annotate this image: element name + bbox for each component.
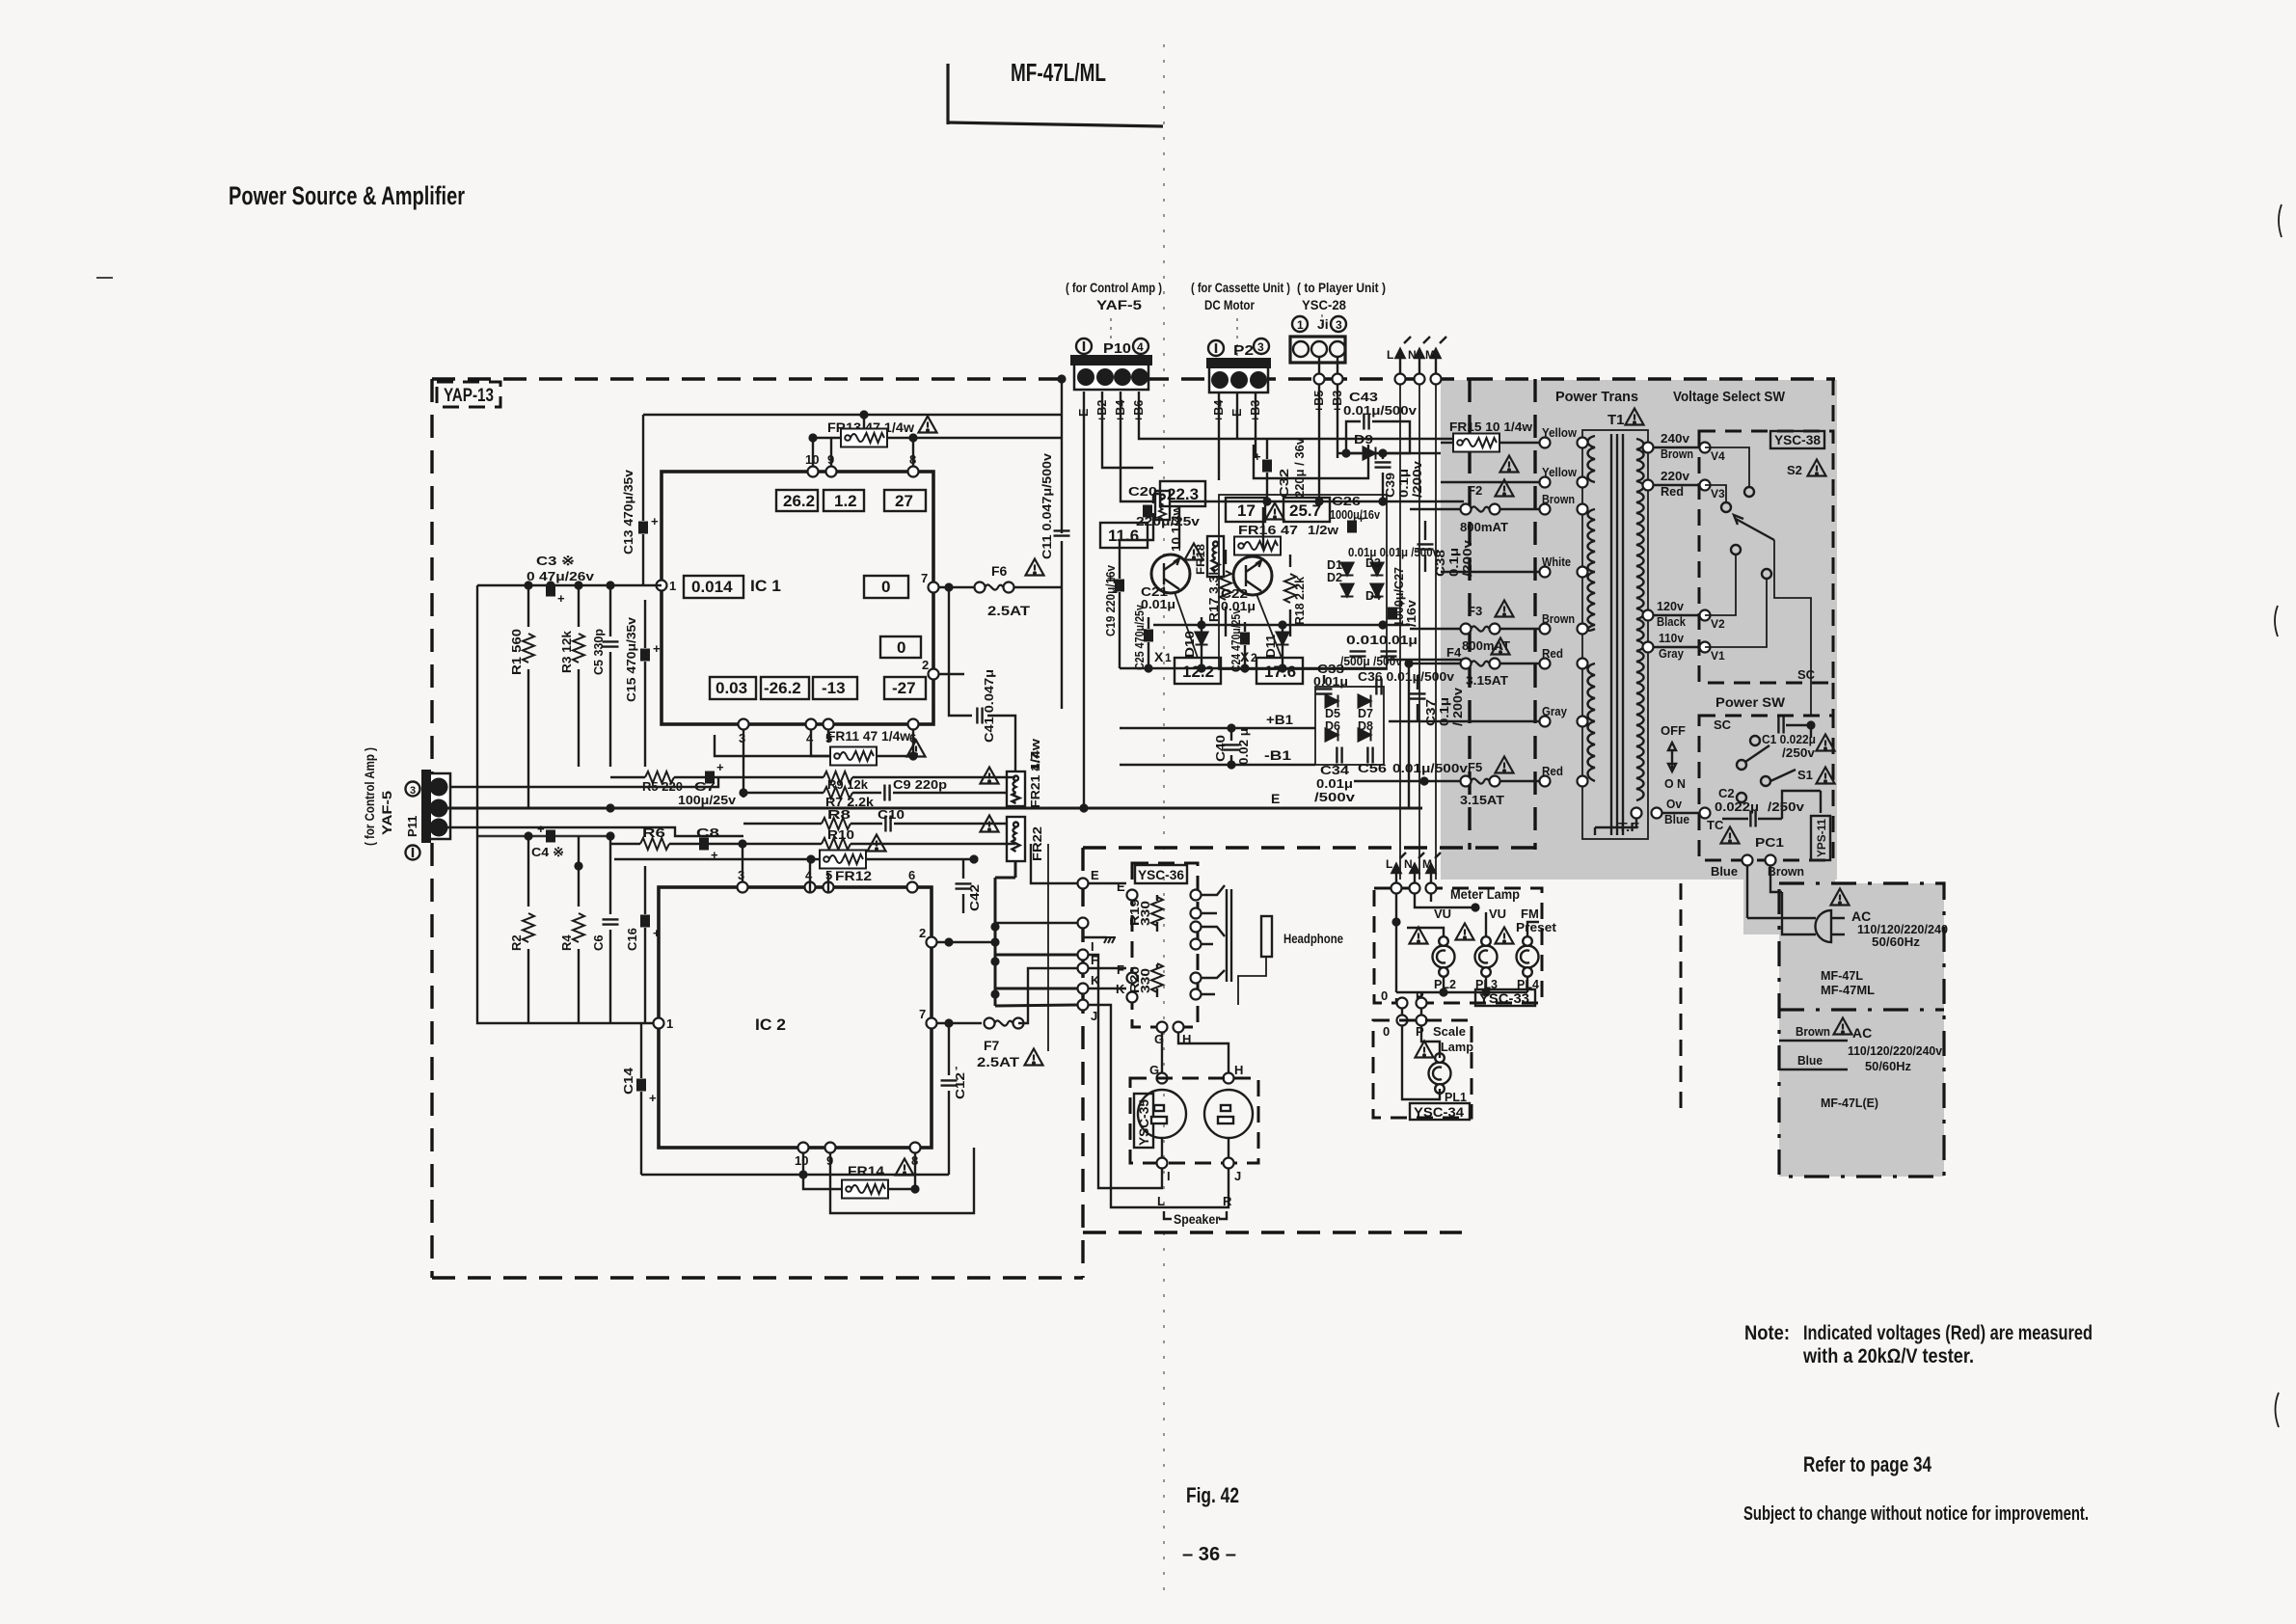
svg-text:C40: C40 [1214, 735, 1228, 762]
vertical bus from FR22 [995, 861, 1015, 1006]
svg-text:Gray: Gray [1659, 646, 1685, 661]
wire gnd row [995, 922, 1077, 924]
voltage box -26.2 (pin4) [761, 677, 809, 699]
E wire from P11 long horizontal [446, 807, 1422, 810]
svg-text:0: 0 [881, 578, 890, 596]
svg-text:N: N [1408, 348, 1417, 362]
C13 cap [638, 415, 659, 585]
IC2 pin 3 [738, 882, 748, 893]
primary coil seg1 [1588, 436, 1596, 482]
power section dashed right edge [1832, 379, 1835, 431]
svg-text:R9 12k: R9 12k [827, 777, 869, 792]
label (for Cassette Unit) DC Motor [1191, 280, 1290, 357]
bridge diodes D5 D7 [1325, 695, 1373, 721]
TC node [1700, 808, 1711, 819]
wire P2 pins down [1219, 392, 1256, 480]
Speaker label with bracket [1164, 1211, 1227, 1227]
svg-text:Power SW: Power SW [1715, 694, 1786, 710]
wire F4 row [1387, 659, 1464, 661]
wire P11 top pin to IC area [450, 777, 718, 787]
wire pins 10,9 up to FR13 left [813, 438, 841, 466]
svg-text:with a 20kΩ/V tester.: with a 20kΩ/V tester. [1802, 1345, 1974, 1367]
C40 cap [1224, 728, 1240, 765]
svg-text:O N: O N [1664, 776, 1686, 791]
FR15 warning [1500, 456, 1519, 473]
wire F3 left [1410, 628, 1460, 630]
TF bottom wire [1595, 818, 1636, 835]
secondary tap wires [1654, 447, 1705, 813]
svg-text:27: 27 [895, 492, 913, 510]
svg-text:220μ / 36v: 220μ / 36v [1292, 437, 1307, 498]
FR18 vertical fusible resistor [1207, 536, 1224, 577]
YAP-13 right edge [1081, 848, 1084, 1278]
output section box [1219, 495, 1387, 669]
C20 cap [1128, 484, 1157, 518]
R18 2.2k vertical resistor [1284, 555, 1296, 636]
C2 cap [1722, 811, 1782, 827]
wire pin2 right [937, 941, 995, 943]
svg-text:220μ/25v: 220μ/25v [1136, 514, 1201, 528]
X1 pointer line and label [1175, 592, 1198, 658]
F7 fuse [985, 1018, 1024, 1029]
svg-text:120v: 120v [1657, 599, 1685, 613]
svg-text:1: 1 [1165, 651, 1172, 664]
J node [1078, 1000, 1089, 1011]
svg-text:R2: R2 [509, 934, 524, 951]
R20 330 resistor [1151, 963, 1163, 997]
C30 C31 caps [1340, 634, 1418, 668]
svg-text:1: 1 [1297, 318, 1304, 332]
YSC-33 dashed box [1374, 888, 1542, 1003]
svg-text:F6: F6 [991, 563, 1008, 579]
svg-text:800mAT: 800mAT [1460, 520, 1508, 534]
svg-text:YSC-28: YSC-28 [1302, 297, 1346, 312]
svg-text:P11: P11 [405, 816, 419, 837]
wire FR14 bottom loop [830, 1148, 974, 1213]
R17 3.3k vertical resistor [1220, 550, 1231, 636]
svg-text:,: , [955, 1058, 958, 1071]
G H nodes bottom of YSC-36 [1157, 1022, 1168, 1033]
V2 node [1700, 610, 1711, 621]
S1 switch [1750, 736, 1760, 745]
bottom connector nodes [1742, 855, 1753, 866]
wire from FR13 area up to top rail [863, 415, 865, 428]
IC2 pin 2 [927, 937, 937, 948]
IC1 pin 2 [929, 669, 939, 680]
FR21 warning [981, 768, 999, 784]
wire FR15 to transformer [1499, 442, 1545, 444]
svg-text:F7: F7 [984, 1038, 1000, 1053]
fold dotted line [1163, 44, 1165, 1603]
svg-text:F4: F4 [1446, 645, 1462, 660]
svg-text:C56: C56 [1358, 762, 1387, 775]
D3 D4 diodes [1365, 556, 1384, 603]
svg-text:YSC-36: YSC-36 [1138, 867, 1184, 882]
wires into AC plug [1747, 892, 1816, 934]
wire E row [1031, 844, 1077, 883]
svg-text:D2: D2 [1327, 571, 1342, 584]
svg-text:Brown: Brown [1542, 492, 1575, 506]
YAP-13 bottom edge [432, 1276, 1083, 1279]
svg-text:4: 4 [1137, 340, 1144, 354]
C43 loop [1346, 421, 1410, 453]
svg-text:( for Control Amp ): ( for Control Amp ) [1066, 280, 1162, 295]
secondary taps [1643, 443, 1654, 453]
speaker section dashed top [1083, 846, 1535, 849]
J1 wires down [1318, 357, 1320, 496]
svg-text:/250v: /250v [1782, 745, 1816, 760]
svg-text:1.2: 1.2 [834, 492, 857, 510]
wire P10 +B4 down then right [1121, 392, 1464, 501]
voltage box -13 (pin5) [813, 677, 857, 699]
IC1 pin 3 [739, 719, 749, 730]
C10 cap [878, 807, 905, 832]
C8 cap [696, 826, 719, 862]
svg-text:Power Trans: Power Trans [1555, 389, 1638, 405]
svg-text:M: M [1422, 857, 1432, 871]
svg-text:+B1: +B1 [1266, 712, 1293, 727]
svg-text:26.2: 26.2 [783, 492, 815, 510]
svg-text:0: 0 [1381, 988, 1388, 1003]
svg-text:/500μ /500v: /500μ /500v [1340, 655, 1402, 668]
wire J1 +B5 column to lower [1318, 496, 1320, 501]
svg-text:V4: V4 [1711, 449, 1725, 463]
primary coil seg3 [1588, 572, 1596, 631]
svg-text:0 47μ/26v: 0 47μ/26v [527, 569, 595, 583]
C3 cap [546, 584, 565, 607]
IC2 pin 9 [825, 1143, 836, 1153]
svg-text:SC: SC [1797, 667, 1816, 682]
C32 loop [1254, 445, 1368, 478]
wires below power sw [1747, 866, 1782, 918]
svg-text:Refer to page 34: Refer to page 34 [1803, 1452, 1932, 1476]
svg-text:L: L [1386, 857, 1392, 871]
D9 diode [1354, 432, 1376, 460]
22.3 voltage box [1160, 481, 1205, 506]
svg-text:C33: C33 [1317, 663, 1344, 676]
svg-text:J: J [1091, 1009, 1097, 1023]
svg-text:2: 2 [919, 926, 926, 940]
bridge bottom caps [1337, 747, 1372, 764]
C37 cap [1410, 675, 1426, 721]
PL2 lamp [1433, 936, 1455, 977]
FR15 fusible resistor [1453, 434, 1499, 452]
ground node [1078, 918, 1089, 929]
svg-text:R10: R10 [827, 827, 854, 842]
IC1 pin 6 [908, 719, 919, 730]
K node left [1078, 984, 1089, 994]
wire pin7 col down to C41 row [949, 587, 972, 716]
svg-text:C24 470μ/25v: C24 470μ/25v [1229, 609, 1243, 672]
svg-text:0.022μ: 0.022μ [1715, 799, 1759, 814]
svg-text:C22: C22 [1221, 587, 1248, 601]
svg-text:AC: AC [1852, 1025, 1872, 1041]
svg-text:V2: V2 [1711, 617, 1725, 631]
11.6 voltage box [1100, 523, 1148, 548]
transformer frame [1582, 430, 1648, 839]
transistor X1 [1151, 555, 1190, 593]
svg-text:0.01: 0.01 [1346, 634, 1379, 647]
YSC-34 label box [1410, 1103, 1470, 1120]
wire pin3 down left rail [743, 730, 744, 798]
svg-text:C11 0.047μ/500v: C11 0.047μ/500v [1040, 452, 1054, 559]
svg-text:C1 0.022μ: C1 0.022μ [1762, 732, 1816, 746]
YSC-33 label box [1475, 989, 1535, 1006]
svg-text:FR22: FR22 [1030, 826, 1044, 861]
ground symbol [1083, 929, 1116, 943]
svg-text:D11: D11 [1264, 635, 1278, 658]
svg-text:+: + [1254, 449, 1261, 464]
svg-text:17: 17 [1237, 501, 1256, 520]
F5 fuse [1461, 776, 1500, 787]
svg-text:Brown: Brown [1542, 611, 1575, 626]
IC2 body [659, 887, 932, 1148]
IC2 pin 1 [654, 1018, 664, 1029]
svg-text:E: E [1117, 880, 1125, 894]
svg-text:+: + [557, 591, 565, 606]
wire F4 to transformer [1500, 663, 1545, 664]
svg-text:0.01μ: 0.01μ [1379, 634, 1418, 647]
svg-text:Brown: Brown [1768, 864, 1804, 879]
svg-text:7: 7 [921, 571, 928, 585]
svg-text:F3: F3 [1468, 604, 1482, 618]
svg-text:Scale: Scale [1433, 1024, 1466, 1039]
C35 C36 caps top [1376, 679, 1381, 695]
svg-text:0.01μ: 0.01μ [1316, 777, 1353, 791]
FR12 fusible resistor [820, 851, 866, 869]
wire bottom rail IC2 [641, 1174, 949, 1176]
wire D9 row [1337, 452, 1441, 454]
FR13 fusible resistor [841, 429, 887, 447]
D1 D2 diodes [1327, 558, 1354, 597]
svg-text:C6: C6 [591, 934, 606, 951]
IC2 pin 4 [805, 882, 816, 893]
E node on YSC-36 [1127, 890, 1138, 901]
C11 0.047u/500v cap [1054, 530, 1070, 709]
svg-text:0.01μ/500v: 0.01μ/500v [1343, 403, 1418, 418]
C4 cap [531, 822, 564, 859]
svg-text:D6: D6 [1325, 719, 1340, 733]
C26 cap [1347, 512, 1364, 533]
C56/F5 wire row [1354, 780, 1464, 782]
FR11 fusible resistor [830, 747, 877, 766]
second L N M arrows [1392, 853, 1442, 888]
E node column left [1078, 879, 1089, 889]
svg-text:240v: 240v [1661, 431, 1690, 446]
svg-text:X: X [1154, 649, 1164, 664]
svg-text:DC Motor: DC Motor [1204, 297, 1255, 312]
25.7 voltage box [1283, 498, 1330, 522]
connector P2 [1206, 338, 1271, 392]
IC1 pin 8 [908, 467, 919, 477]
YSC-36 label box [1135, 865, 1187, 883]
wire K row [995, 988, 1077, 990]
lamp top wires [1407, 912, 1539, 936]
voltage box 26.2 (pin10) [776, 490, 818, 511]
wires FR12 row [614, 858, 974, 860]
svg-text:C26: C26 [1332, 495, 1361, 508]
warning top [1831, 889, 1850, 906]
svg-text:12.2: 12.2 [1182, 663, 1214, 681]
F4 fuse [1461, 659, 1500, 669]
R4 resistor [559, 870, 584, 1023]
wire FR11 right to pin6 col [877, 730, 913, 756]
svg-text:C5 330p: C5 330p [591, 629, 606, 675]
D10 diode vertical [1196, 617, 1208, 668]
F3 fuse [1461, 624, 1500, 635]
svg-text:J: J [1234, 1169, 1241, 1183]
F3 bus line [1153, 624, 1410, 626]
svg-text:S2: S2 [1787, 463, 1802, 477]
IC1 pin 7 [929, 582, 939, 593]
svg-text:/500v: /500v [1314, 791, 1355, 804]
svg-text:YPS-11: YPS-11 [1815, 819, 1828, 857]
PL4 lamp [1517, 936, 1539, 977]
R6 resistor [640, 826, 669, 850]
OFF/ON arrow [1668, 743, 1676, 771]
svg-text:IC 1: IC 1 [750, 577, 781, 595]
svg-text:D7: D7 [1358, 707, 1373, 720]
svg-text:C41 0.047μ: C41 0.047μ [982, 669, 996, 743]
O P connector circles between boxes [1397, 998, 1408, 1009]
FR17 vertical fusible resistor [1155, 491, 1170, 520]
svg-text:FR15 10 1/4w: FR15 10 1/4w [1449, 420, 1533, 434]
svg-text:VU: VU [1489, 907, 1506, 921]
wires G H down [1162, 1033, 1229, 1078]
L N M terminals on dashed line [1395, 374, 1406, 385]
YSC-38 label box [1770, 431, 1824, 448]
svg-text:F2: F2 [1468, 483, 1482, 498]
svg-text:C8: C8 [696, 826, 719, 840]
17 voltage box [1226, 498, 1265, 522]
svg-text:R18 2.2k: R18 2.2k [1293, 577, 1307, 625]
svg-text:Yellow: Yellow [1542, 465, 1578, 479]
R9 12k resistor [824, 771, 869, 792]
row A wire [610, 776, 1015, 778]
voltage box 0.03 (pin3) [710, 677, 756, 699]
svg-text:FR14: FR14 [848, 1163, 884, 1178]
svg-text:1: 1 [669, 579, 676, 593]
wire bus y520 right [1262, 497, 1271, 505]
YAP-13 top long dashed line [432, 377, 1470, 380]
svg-text:Voltage Select SW: Voltage Select SW [1673, 389, 1786, 405]
wire P10 E pin down to E line [1083, 392, 1085, 808]
transistor X2 [1233, 556, 1272, 595]
C43 cap [1364, 414, 1368, 430]
dashed vertical right of lamp boxes [1680, 883, 1683, 1114]
warning below TC [1721, 827, 1740, 844]
svg-text:H: H [1234, 1063, 1243, 1077]
C41 cap [977, 708, 982, 724]
svg-text:C10: C10 [878, 807, 905, 822]
IC2 pin 7 [927, 1018, 937, 1029]
V1 node [1700, 642, 1711, 653]
YSC-35 dashed box [1130, 1078, 1258, 1163]
svg-text:0.1μ: 0.1μ [1396, 469, 1411, 498]
svg-text:Brown: Brown [1796, 1025, 1830, 1039]
svg-text:YAF-5: YAF-5 [379, 791, 394, 835]
svg-text:P2: P2 [1233, 342, 1254, 359]
IC1 pin 10 [808, 467, 819, 477]
fuse box dashed left [1468, 379, 1471, 850]
C1 cap [1778, 717, 1811, 739]
svg-text:FR12: FR12 [835, 868, 872, 883]
svg-text:R4: R4 [559, 934, 574, 951]
svg-text:D4: D4 [1365, 589, 1381, 603]
svg-text:MF-47ML: MF-47ML [1821, 983, 1875, 997]
svg-text:V3: V3 [1711, 487, 1725, 501]
svg-text:220v: 220v [1661, 469, 1690, 483]
FR13 warning [919, 417, 937, 433]
second yellow tap wire [1441, 481, 1545, 483]
C39 cap [1375, 453, 1391, 501]
svg-text:L: L [1157, 1194, 1165, 1208]
PL3 lamp [1475, 936, 1498, 977]
svg-text:3.15AT: 3.15AT [1460, 793, 1504, 807]
YPS-11 label box [1811, 816, 1830, 860]
C14 cap [621, 1023, 657, 1175]
wire pin3 top [742, 844, 743, 881]
FR21 vertical fusible resistor [1007, 771, 1025, 806]
svg-text:FR16 47: FR16 47 [1238, 523, 1298, 537]
YAP-13 left edge [430, 379, 433, 1278]
svg-text:1/2w: 1/2w [1308, 523, 1339, 537]
fuse box dashed right [1533, 379, 1536, 850]
wire FR22 bottom [1014, 861, 1016, 878]
svg-text:P: P [1416, 1024, 1424, 1039]
svg-text:C16: C16 [625, 928, 639, 951]
svg-text:White: White [1542, 555, 1571, 569]
I node [1078, 950, 1089, 961]
bridge diodes D6 D8 [1325, 719, 1373, 742]
R2 resistor [509, 870, 534, 1023]
svg-text:Note:: Note: [1744, 1322, 1790, 1344]
headphone plug [1238, 916, 1272, 1005]
F2 fuse [1461, 504, 1500, 515]
svg-text:D9: D9 [1354, 432, 1373, 447]
PL1 wires [1402, 1026, 1440, 1099]
svg-text:T1: T1 [1607, 412, 1625, 428]
wire FR15 left [1441, 442, 1453, 444]
wire pin8 up join [912, 438, 914, 466]
svg-text:( for Control Amp ): ( for Control Amp ) [362, 747, 377, 846]
svg-text:/16v: /16v [1405, 600, 1418, 627]
wire pin7 to F7 [937, 1022, 982, 1024]
voltage box 0.014 (pin1) [684, 576, 743, 598]
voltage box 17.6 [1256, 658, 1303, 684]
svg-text:110/120/220/240: 110/120/220/240 [1857, 923, 1948, 936]
L N M terminals on box top [1391, 883, 1402, 894]
X1 X2 emitter links [1120, 494, 1179, 555]
C15 cap [640, 600, 661, 767]
R7 2.2k resistor [824, 787, 875, 809]
svg-text:1000μ/16v: 1000μ/16v [1330, 508, 1380, 522]
svg-text:E: E [1091, 868, 1099, 882]
wire pin2 right [939, 673, 964, 675]
C7 cap [705, 760, 724, 784]
svg-text:C36 0.01μ/500v: C36 0.01μ/500v [1358, 670, 1454, 684]
voltage box 1.2 (pin9) [824, 490, 864, 511]
PL1 lamp [1429, 1053, 1451, 1094]
C3 label [527, 554, 595, 583]
primary tap terminals [1540, 438, 1551, 448]
junction C32 column [1266, 439, 1268, 501]
connector J1 [1290, 316, 1346, 363]
scan mark right 1 [2279, 204, 2282, 237]
warning triangle scale lamp [1416, 1042, 1434, 1058]
V4 node [1700, 443, 1711, 453]
svg-text:0.01μ: 0.01μ [1221, 600, 1256, 613]
